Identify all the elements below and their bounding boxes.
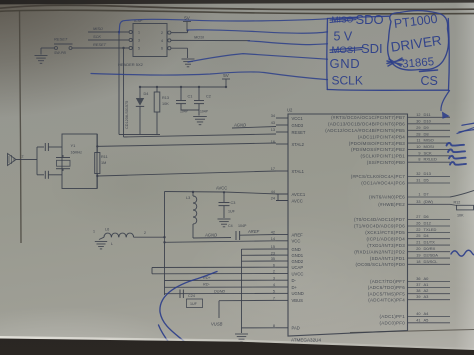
svg-text:SDO: SDO (356, 12, 384, 27)
svg-text:SCLK: SCLK (332, 74, 363, 88)
svg-text:SDI: SDI (361, 41, 383, 56)
svg-text:PT1000: PT1000 (393, 12, 438, 31)
svg-text:CS: CS (421, 74, 438, 88)
svg-text:GND: GND (330, 56, 361, 71)
svg-text:DRIVER: DRIVER (390, 33, 443, 55)
svg-text:5 V: 5 V (334, 29, 353, 43)
